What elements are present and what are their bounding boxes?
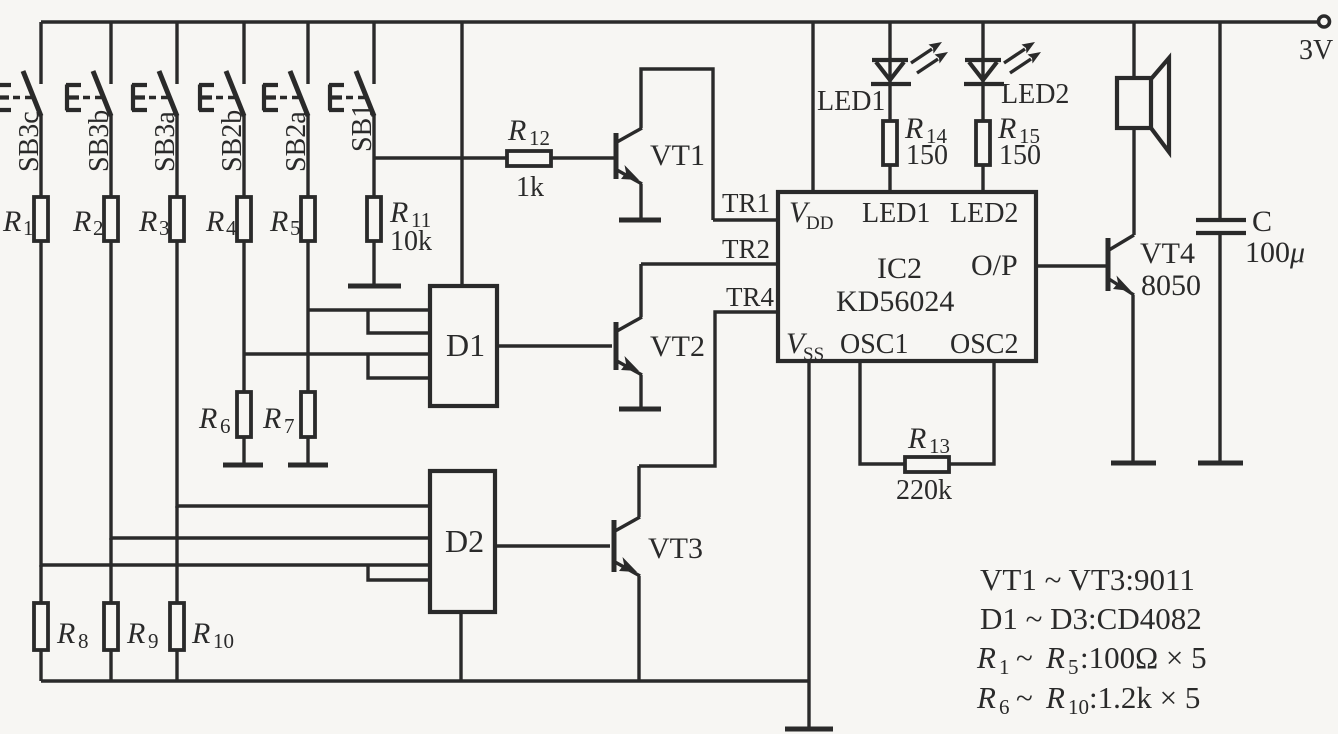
wire D2 to bottom rail	[459, 612, 462, 681]
svg-text:LED2: LED2	[1001, 79, 1069, 110]
svg-text:D1 ~ D3:CD4082: D1 ~ D3:CD4082	[980, 601, 1202, 636]
svg-text:TR2: TR2	[722, 234, 770, 264]
wire top rail to D1	[460, 22, 463, 286]
ground VT4 emitter	[1111, 461, 1156, 466]
svg-text:R: R	[191, 617, 210, 650]
wire VDD pin to top rail	[811, 22, 814, 192]
resistor R11 10k	[367, 114, 432, 285]
svg-text:LED2: LED2	[950, 198, 1018, 229]
svg-text:12: 12	[529, 126, 550, 150]
svg-text:R: R	[389, 196, 408, 229]
resistor R10	[170, 506, 234, 681]
wire D2 output to VT3 base	[495, 544, 610, 547]
node 3V terminal	[1299, 16, 1333, 66]
svg-text:7: 7	[284, 414, 295, 438]
svg-text:R: R	[198, 402, 217, 435]
resistor R7	[262, 392, 315, 463]
svg-text:9: 9	[148, 629, 159, 653]
svg-text:10k: 10k	[390, 226, 432, 257]
svg-text:10: 10	[213, 629, 234, 653]
wire TR1 into IC	[713, 188, 778, 220]
ground VT1 emitter	[619, 218, 661, 223]
svg-text:100μ: 100μ	[1245, 236, 1305, 269]
resistor R6	[198, 392, 251, 463]
capacitor C 100u	[1196, 22, 1305, 462]
wire O/P to VT4 base	[1036, 264, 1106, 267]
resistor R12 1k	[507, 114, 551, 203]
svg-text:R: R	[56, 617, 75, 650]
op-amp IC2 KD56024	[778, 192, 1036, 365]
svg-text:4: 4	[226, 216, 237, 240]
resistor R1	[2, 114, 48, 567]
svg-text:LED1: LED1	[862, 198, 930, 229]
wire TR4 from IC to VT3 collector	[639, 282, 778, 466]
resistor R9	[104, 538, 159, 681]
switch SB3a	[132, 22, 181, 172]
switch SB1	[329, 22, 378, 152]
ground below R7	[288, 463, 328, 468]
svg-text:D2: D2	[445, 523, 484, 559]
svg-text:R: R	[976, 680, 996, 715]
svg-text:R: R	[205, 205, 224, 238]
svg-text:1: 1	[999, 655, 1010, 679]
svg-text:R: R	[126, 617, 145, 650]
note line 3	[976, 640, 1207, 679]
transistor VT4 8050	[1108, 235, 1201, 462]
svg-text:OSC2: OSC2	[950, 329, 1018, 360]
LED LED1	[817, 22, 911, 121]
wire SB1 node to R12	[374, 156, 507, 159]
svg-text:10: 10	[1068, 695, 1089, 719]
and-gate D2	[430, 471, 495, 612]
svg-text::1.2k × 5: :1.2k × 5	[1089, 680, 1200, 715]
svg-text:SS: SS	[803, 344, 824, 365]
svg-text:8050: 8050	[1141, 269, 1201, 302]
wire D1 input 3 from SB2b column	[244, 352, 430, 355]
wire top supply rail	[41, 20, 1318, 23]
svg-text:VT2: VT2	[650, 330, 705, 363]
svg-text:TR4: TR4	[726, 282, 775, 312]
svg-text:DD: DD	[806, 213, 833, 234]
svg-text:5: 5	[1068, 655, 1079, 679]
ground VSS	[785, 727, 833, 732]
svg-text:R: R	[138, 205, 157, 238]
svg-text:IC2: IC2	[877, 252, 922, 285]
svg-text:R: R	[976, 640, 996, 675]
switch SB2b	[199, 22, 248, 172]
svg-text:R: R	[507, 114, 526, 147]
wire D1 input 1 from SB2a column	[308, 308, 430, 311]
svg-text:O/P: O/P	[971, 249, 1018, 282]
svg-text:R: R	[269, 205, 288, 238]
ground VT2 emitter	[619, 407, 661, 412]
wire D2 input 4 stub	[368, 565, 430, 580]
svg-text:6: 6	[999, 695, 1010, 719]
svg-text:1k: 1k	[516, 172, 544, 203]
svg-text:~: ~	[1016, 680, 1033, 715]
svg-text:R: R	[72, 205, 91, 238]
resistor R4	[205, 114, 251, 392]
ground below R6	[223, 463, 263, 468]
wire D1 output to VT2 base	[497, 344, 612, 347]
switch SB2a	[263, 22, 312, 172]
svg-text:LED1: LED1	[817, 86, 885, 117]
svg-text:R: R	[907, 422, 926, 455]
svg-text:D1: D1	[446, 327, 485, 363]
svg-text:VT1: VT1	[650, 139, 705, 172]
LED1 light arrows	[911, 42, 948, 73]
svg-text:R: R	[1045, 680, 1065, 715]
wire D2 input 3 from R1 column	[41, 563, 430, 566]
wire D2 input 2 from R2 column	[111, 536, 430, 539]
wire TR2 into IC	[641, 234, 778, 264]
wire R12 to VT1 base	[551, 156, 614, 159]
LED2 light arrows	[1004, 42, 1041, 73]
svg-text:OSC1: OSC1	[840, 329, 908, 360]
resistor R2	[72, 114, 118, 540]
transistor VT1	[616, 69, 713, 220]
LED LED2	[964, 22, 1069, 121]
and-gate D1	[430, 286, 497, 406]
svg-text:KD56024: KD56024	[836, 285, 954, 318]
svg-text:220k: 220k	[896, 475, 952, 506]
svg-text:3V: 3V	[1299, 35, 1333, 66]
wire D2 input 1 from R3 column	[177, 504, 430, 507]
svg-text:13: 13	[929, 434, 950, 458]
svg-text:5: 5	[290, 216, 301, 240]
transistor VT3	[614, 466, 703, 681]
svg-text:C: C	[1252, 205, 1272, 238]
svg-text:~: ~	[1016, 640, 1033, 675]
wire OSC1 pin down	[860, 361, 905, 464]
svg-text:150: 150	[906, 140, 948, 171]
svg-text:150: 150	[999, 140, 1041, 171]
note line 4	[976, 680, 1200, 719]
svg-text:R: R	[262, 402, 281, 435]
wire VSS pin down	[807, 361, 810, 728]
svg-text::100Ω × 5: :100Ω × 5	[1080, 640, 1207, 675]
switch SB3b	[66, 22, 115, 172]
svg-text:3: 3	[159, 216, 170, 240]
svg-text:1: 1	[23, 216, 34, 240]
svg-text:TR1: TR1	[722, 188, 770, 218]
resistor R14 150	[883, 112, 948, 192]
svg-text:8: 8	[78, 629, 89, 653]
svg-text:6: 6	[220, 414, 231, 438]
transistor VT2	[616, 264, 705, 407]
wire OSC2 pin down	[949, 361, 994, 464]
resistor R15 150	[976, 112, 1041, 192]
wire bottom rail	[41, 679, 810, 682]
svg-text:R: R	[2, 205, 21, 238]
ground capacitor	[1198, 461, 1243, 466]
svg-text:VT3: VT3	[648, 532, 703, 565]
wire D1 input 4 stub	[368, 354, 430, 378]
resistor R13 220k	[896, 422, 952, 506]
resistor R3	[138, 114, 184, 508]
resistor R5	[269, 114, 315, 392]
wire D1 input 2 stub	[368, 310, 430, 333]
svg-text:2: 2	[93, 216, 104, 240]
speaker BL	[1117, 22, 1169, 235]
svg-text:VT4: VT4	[1140, 237, 1195, 270]
ground below R11	[348, 284, 401, 289]
resistor R8	[34, 565, 89, 681]
switch SB3c	[0, 22, 45, 172]
svg-text:VT1 ~ VT3:9011: VT1 ~ VT3:9011	[980, 562, 1195, 597]
svg-text:R: R	[1045, 640, 1065, 675]
